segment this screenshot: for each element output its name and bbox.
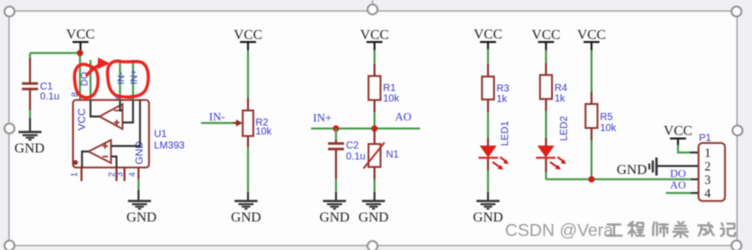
wire C2 to GND: [335, 179, 337, 192]
svg-text:LM393: LM393: [154, 141, 185, 152]
svg-text:0.1u: 0.1u: [346, 152, 365, 163]
wire U1 internal: [82, 100, 140, 168]
svg-text:VCC: VCC: [577, 28, 606, 43]
svg-text:GND: GND: [14, 142, 44, 157]
svg-text:GND: GND: [473, 211, 503, 226]
svg-text:1: 1: [705, 146, 711, 160]
U1 pin DO stub: [90, 60, 92, 100]
ground GND (C1): [19, 132, 42, 140]
op-amp A1 triangle: [100, 104, 123, 129]
node VCC7 flag (P1): [664, 124, 693, 145]
ground GND (C2): [323, 201, 346, 209]
svg-text:1k: 1k: [497, 94, 509, 105]
wire U1 pin4 to GND: [138, 179, 140, 190]
annotation circle around DO: [74, 64, 98, 97]
svg-text:CSDN @Vera: CSDN @Vera: [505, 220, 613, 240]
svg-text:AO: AO: [395, 112, 412, 124]
wire VCC1 down to U1 pin8: [79, 53, 81, 100]
wire LED1 to GND: [487, 170, 489, 192]
ground GND flag (P1 pin2): [617, 158, 657, 179]
wire VCC6 to R5: [591, 50, 593, 92]
ground GND (U1): [128, 201, 151, 209]
pin 1 marker dot: [73, 160, 78, 165]
svg-text:LED2: LED2: [559, 116, 570, 141]
node VCC6 flag: [577, 28, 606, 50]
svg-text:R1: R1: [383, 83, 396, 94]
ground GND (LED1): [477, 201, 500, 209]
thermistor N1: [364, 131, 400, 179]
svg-text:IN-: IN-: [116, 72, 127, 85]
svg-text:4: 4: [127, 172, 137, 177]
svg-text:GND: GND: [617, 163, 647, 178]
svg-text:VCC: VCC: [66, 28, 95, 43]
node junction DO row: [588, 176, 594, 182]
svg-text:10k: 10k: [256, 127, 273, 138]
svg-text:N1: N1: [386, 150, 399, 161]
wire R1 to node row: [374, 112, 376, 129]
watermark CJK characters: [606, 222, 735, 237]
LED LED1: [479, 121, 512, 170]
capacitor C1: [22, 58, 59, 110]
char cheng4: [698, 223, 713, 236]
wire N1 to GND: [374, 179, 376, 192]
char gong: [606, 225, 621, 236]
U1 pin stubs bottom: [82, 168, 139, 182]
svg-text:0.1u: 0.1u: [40, 92, 59, 103]
ground GND (N1): [362, 201, 385, 209]
op-amp A2 triangle: [89, 140, 112, 163]
node junction at VCC1: [77, 50, 83, 56]
node junction N1: [371, 125, 377, 131]
op-amp U1 LM393 body: [73, 100, 149, 168]
char ji: [721, 223, 735, 236]
annotation circle around IN-/IN+: [107, 61, 148, 97]
svg-text:GND: GND: [126, 211, 156, 226]
svg-text:VCC: VCC: [474, 28, 503, 43]
wire VCC3 to R1: [374, 50, 376, 64]
resistor R1: [369, 64, 401, 112]
svg-text:R5: R5: [600, 112, 613, 123]
wire LED2 to DO row: [545, 172, 547, 179]
svg-text:VCC: VCC: [234, 28, 263, 43]
node VCC5 flag: [532, 28, 561, 50]
wire VCC5 to R4: [545, 50, 547, 63]
svg-text:VCC: VCC: [76, 108, 88, 131]
U1 pin IN- stub: [119, 60, 121, 100]
capacitor C2: [328, 140, 365, 179]
svg-text:GND: GND: [319, 211, 349, 226]
svg-text:IN-: IN-: [209, 112, 225, 124]
svg-text:IN+: IN+: [313, 113, 332, 125]
svg-text:GND: GND: [358, 211, 388, 226]
svg-text:P1: P1: [699, 133, 712, 144]
annotation arrow: [86, 64, 102, 76]
svg-text:4: 4: [705, 187, 712, 201]
svg-text:IN+: IN+: [129, 69, 140, 85]
svg-text:3: 3: [115, 172, 125, 177]
node junction C2: [333, 125, 339, 131]
node VCC3 flag: [360, 28, 389, 50]
wire DO row: [546, 178, 691, 180]
wire VCC7 to P1 pin1: [678, 145, 690, 153]
wire GND to P1 pin2: [657, 165, 699, 167]
svg-text:3: 3: [705, 173, 711, 187]
potentiometer R2: [233, 98, 273, 147]
svg-text:GND: GND: [231, 211, 261, 226]
wire VCC1 to C1: [30, 52, 80, 54]
svg-text:C2: C2: [346, 141, 359, 152]
node VCC4 flag: [474, 28, 503, 50]
U1 pin numbers bottom: [69, 172, 137, 177]
svg-text:DO: DO: [670, 168, 686, 180]
wire R2 to GND: [247, 147, 249, 192]
wire VCC2 to R2: [247, 50, 249, 98]
wire VCC4 to R3: [487, 49, 489, 64]
wire IN- stub to R2 wiper: [201, 122, 233, 124]
U1 pin IN+ stub: [132, 60, 134, 100]
resistor R4: [540, 63, 568, 111]
wire node to C2: [335, 129, 337, 141]
svg-text:VCC: VCC: [360, 28, 389, 43]
char shi: [653, 222, 668, 236]
svg-text:1: 1: [69, 172, 79, 177]
resistor R5: [586, 92, 618, 140]
U1 pin labels top: [80, 69, 141, 86]
ground GND (R2): [235, 201, 258, 209]
char cheng2: [628, 222, 644, 236]
node VCC2 flag: [234, 28, 263, 50]
svg-text:2: 2: [705, 160, 711, 174]
svg-text:VCC: VCC: [664, 124, 693, 139]
svg-text:10k: 10k: [383, 94, 400, 105]
svg-text:1k: 1k: [555, 94, 567, 105]
wire R4 to LED2: [545, 111, 547, 138]
char yang: [673, 222, 688, 237]
wire R5 to DO row: [591, 140, 593, 179]
svg-text:R4: R4: [555, 83, 568, 94]
resistor R3: [482, 64, 510, 112]
svg-text:VCC: VCC: [532, 28, 561, 43]
wire R3 to LED1: [487, 112, 489, 138]
node VCC1 flag: [66, 28, 95, 51]
wire IN+ row: [311, 128, 420, 130]
wire C1 top: [29, 53, 31, 58]
wire C1 to GND: [29, 110, 31, 118]
svg-text:R3: R3: [497, 84, 510, 95]
svg-text:10k: 10k: [600, 123, 617, 134]
wire AO stub to P1 pin4: [666, 192, 691, 194]
svg-text:AO: AO: [670, 180, 686, 192]
svg-text:LED1: LED1: [500, 121, 511, 146]
connector P1: [699, 133, 726, 201]
LED LED2: [536, 116, 570, 172]
svg-text:U1: U1: [154, 129, 167, 140]
